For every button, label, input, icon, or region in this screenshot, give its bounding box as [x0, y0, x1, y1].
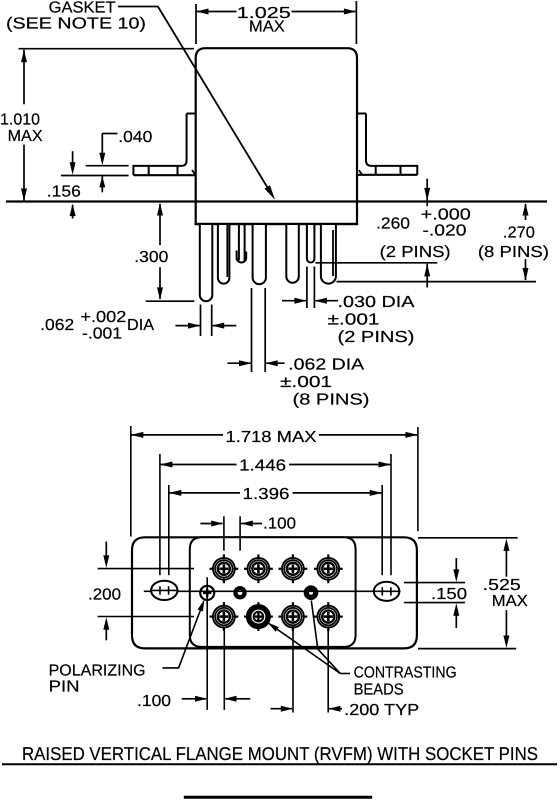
svg-text:1.446: 1.446: [239, 458, 286, 475]
svg-text:1.718 MAX: 1.718 MAX: [226, 429, 317, 446]
svg-text:.260: .260: [376, 216, 410, 233]
svg-text:.150: .150: [431, 586, 467, 603]
svg-text:MAX: MAX: [492, 593, 528, 610]
svg-text:.100: .100: [137, 693, 171, 710]
svg-text:.030 DIA: .030 DIA: [338, 294, 415, 311]
svg-text:(SEE NOTE 10): (SEE NOTE 10): [6, 16, 146, 33]
svg-text:BEADS: BEADS: [354, 682, 404, 699]
svg-text:(8 PINS): (8 PINS): [293, 392, 370, 409]
svg-text:DIA: DIA: [127, 317, 154, 334]
svg-text:RAISED VERTICAL FLANGE MOUNT (: RAISED VERTICAL FLANGE MOUNT (RVFM) WITH…: [22, 743, 538, 764]
svg-text:MAX: MAX: [8, 128, 43, 145]
svg-text:PIN: PIN: [49, 678, 80, 695]
svg-text:±.001: ±.001: [328, 312, 380, 329]
svg-text:GASKET: GASKET: [49, 0, 116, 16]
svg-text:(2 PINS): (2 PINS): [338, 329, 415, 346]
svg-text:.062: .062: [40, 317, 74, 334]
svg-text:-.020: -.020: [423, 223, 467, 240]
svg-text:1.010: 1.010: [0, 112, 40, 129]
svg-text:.040: .040: [118, 129, 152, 146]
svg-text:-.001: -.001: [82, 325, 122, 342]
svg-text:±.001: ±.001: [280, 374, 332, 391]
svg-text:CONTRASTING: CONTRASTING: [354, 665, 457, 682]
svg-text:.062 DIA: .062 DIA: [288, 357, 364, 374]
svg-text:1.396: 1.396: [243, 486, 290, 503]
svg-text:POLARIZING: POLARIZING: [49, 662, 146, 679]
svg-text:.270: .270: [503, 225, 535, 242]
svg-text:.200: .200: [88, 587, 121, 604]
svg-text:.100: .100: [263, 515, 296, 532]
svg-text:+.000: +.000: [421, 207, 471, 224]
svg-text:(8 PINS): (8 PINS): [478, 244, 549, 261]
svg-text:(2 PINS): (2 PINS): [380, 244, 451, 261]
svg-text:.300: .300: [134, 249, 168, 266]
svg-text:.200 TYP: .200 TYP: [344, 702, 419, 719]
svg-text:.156: .156: [47, 184, 81, 201]
svg-text:.525: .525: [483, 577, 521, 594]
svg-text:+.002: +.002: [80, 309, 126, 326]
svg-text:MAX: MAX: [249, 18, 285, 35]
